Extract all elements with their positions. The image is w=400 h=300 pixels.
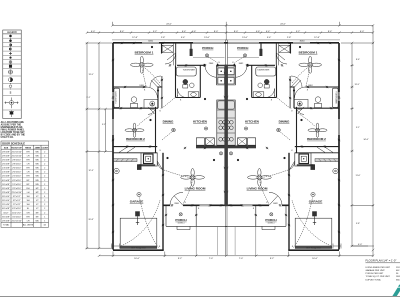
svg-text:COUNT: COUNT — [41, 148, 49, 150]
svg-text:WD: WD — [35, 159, 39, 161]
svg-text:WD: WD — [35, 155, 39, 157]
svg-text:2'8"x6'10": 2'8"x6'10" — [12, 159, 21, 161]
svg-text:6'-0": 6'-0" — [91, 31, 96, 33]
svg-text:GARAGE: GARAGE — [309, 199, 323, 203]
logo slash (teal) — [392, 288, 400, 297]
svg-text:8'-6": 8'-6" — [356, 59, 360, 61]
svg-text:13'-9": 13'-9" — [88, 74, 93, 76]
svg-text:PORCH: PORCH — [237, 46, 249, 50]
svg-text:5'2"x6'10": 5'2"x6'10" — [12, 184, 21, 186]
svg-text:2'10"x6'10": 2'10"x6'10" — [12, 220, 22, 222]
svg-text:WD: WD — [35, 164, 39, 166]
svg-text:13'-0": 13'-0" — [242, 37, 248, 39]
svg-text:1805: 1805 — [396, 276, 400, 278]
svg-text:6'2"x6'10": 6'2"x6'10" — [12, 208, 21, 210]
left unit geometry — [112, 40, 229, 256]
svg-text:3'2"x6'10": 3'2"x6'10" — [12, 216, 21, 218]
svg-text:1247: 1247 — [396, 267, 400, 269]
svg-text:DUPLEX TOTAL: DUPLEX TOTAL — [366, 278, 382, 281]
svg-text:9'-1": 9'-1" — [356, 127, 360, 129]
svg-text:4'2"x6'10": 4'2"x6'10" — [12, 180, 21, 182]
dimension lines: right — [341, 33, 374, 252]
svg-text:BEDROOM 1: BEDROOM 1 — [135, 51, 154, 55]
svg-text:3'0"x6'8": 3'0"x6'8" — [2, 216, 10, 218]
svg-text:2'6"x6'10": 2'6"x6'10" — [12, 172, 21, 174]
svg-text:TOTAL: TOTAL — [3, 224, 10, 227]
porch conc labels — [178, 223, 275, 225]
svg-text:3'2"x5'2": 3'2"x5'2" — [13, 200, 21, 202]
svg-text:4'0"x6'8": 4'0"x6'8" — [2, 180, 10, 182]
svg-text:12'-8": 12'-8" — [132, 37, 138, 39]
dimension texts — [91, 24, 365, 260]
svg-text:(CONC.): (CONC.) — [268, 223, 275, 225]
room labels — [126, 46, 326, 222]
schedule headers — [4, 147, 49, 150]
svg-text:ALL UNITS: ALL UNITS — [23, 224, 34, 227]
area tabulation — [366, 266, 400, 282]
svg-text:13'-9": 13'-9" — [354, 84, 359, 86]
svg-text:3'0"x5'0": 3'0"x5'0" — [2, 196, 10, 198]
svg-text:6'-0": 6'-0" — [360, 31, 365, 33]
svg-text:12'-3": 12'-3" — [88, 170, 93, 172]
svg-text:3'2"x6'10": 3'2"x6'10" — [12, 188, 21, 190]
svg-text:OH: OH — [26, 212, 30, 214]
svg-text:WD: WD — [35, 176, 39, 178]
svg-text:GARAGE PER UNIT: GARAGE PER UNIT — [366, 269, 386, 272]
svg-text:2'10"x6'10": 2'10"x6'10" — [12, 155, 22, 157]
svg-text:WD: WD — [35, 220, 39, 222]
garage door labels — [131, 246, 321, 249]
svg-text:PORCH: PORCH — [202, 46, 214, 50]
note text block — [1, 121, 26, 139]
svg-text:DINING: DINING — [279, 119, 290, 123]
svg-text:5'0"x6'8": 5'0"x6'8" — [2, 184, 10, 186]
svg-text:2'2"x6'10": 2'2"x6'10" — [12, 176, 21, 178]
svg-text:2'-8": 2'-8" — [287, 37, 292, 39]
svg-text:TUB/SHOWER: TUB/SHOWER — [257, 70, 270, 72]
svg-text:3'0"x6'8": 3'0"x6'8" — [2, 188, 10, 190]
svg-text:WD: WD — [35, 184, 39, 186]
svg-text:FLOOR PLAN 1/4" = 1'-0": FLOOR PLAN 1/4" = 1'-0" — [366, 258, 397, 262]
svg-text:5'-4": 5'-4" — [181, 37, 186, 39]
svg-text:BEDROOM 2: BEDROOM 2 — [126, 137, 145, 141]
svg-text:SIZE: SIZE — [4, 148, 9, 150]
svg-text:3050: 3050 — [148, 40, 154, 42]
svg-text:LIVING SPACE PER UNIT: LIVING SPACE PER UNIT — [366, 266, 391, 269]
svg-text:RH: RH — [27, 216, 30, 218]
center line below party wall — [225, 25, 227, 255]
svg-text:2'8"x6'10": 2'8"x6'10" — [12, 164, 21, 166]
svg-text:16'2"x7'2": 16'2"x7'2" — [12, 212, 21, 214]
svg-text:16'-0": 16'-0" — [134, 258, 140, 260]
party wall (center) — [224, 65, 228, 206]
svg-text:2'0"x3'0": 2'0"x3'0" — [2, 204, 10, 206]
svg-text:4'-6": 4'-6" — [256, 31, 261, 33]
legend box — [3, 30, 21, 119]
svg-text:UTILITY CO.: UTILITY CO. — [1, 137, 14, 139]
svg-text:RH: RH — [27, 188, 30, 190]
svg-text:3050: 3050 — [300, 40, 306, 42]
svg-text:BEDROOM 1: BEDROOM 1 — [299, 51, 318, 55]
svg-text:TUB/SHOWER: TUB/SHOWER — [183, 70, 196, 72]
svg-text:2'-8": 2'-8" — [161, 37, 166, 39]
svg-text:2'8"x6'8": 2'8"x6'8" — [2, 151, 10, 153]
svg-text:6'-4": 6'-4" — [266, 31, 271, 33]
svg-text:BEDROOM 2: BEDROOM 2 — [307, 137, 326, 141]
svg-text:2'10"x6'10": 2'10"x6'10" — [12, 192, 22, 194]
center pad lines — [217, 227, 235, 255]
svg-text:3'2"x5'2": 3'2"x5'2" — [13, 196, 21, 198]
svg-text:LIVING ROOM: LIVING ROOM — [247, 186, 268, 190]
svg-text:2'8"x6'8": 2'8"x6'8" — [2, 220, 10, 222]
svg-text:WD: WD — [35, 168, 39, 170]
svg-text:16'-0": 16'-0" — [312, 258, 318, 260]
svg-text:2'8"x6'8": 2'8"x6'8" — [2, 192, 10, 194]
svg-text:16'x7' Garage Door: 16'x7' Garage Door — [306, 246, 321, 249]
svg-text:2'8"x6'8": 2'8"x6'8" — [2, 155, 10, 157]
svg-text:GARAGE: GARAGE — [130, 199, 144, 203]
svg-text:2'10"x6'10": 2'10"x6'10" — [12, 151, 22, 153]
svg-text:TUB/SHOWER: TUB/SHOWER — [116, 91, 118, 104]
svg-text:5'-4": 5'-4" — [267, 37, 272, 39]
right unit geometry (mirrored) — [224, 40, 341, 256]
svg-text:WD: WD — [35, 172, 39, 174]
svg-text:TOTAL SQ. FT. PER UNIT: TOTAL SQ. FT. PER UNIT — [366, 275, 391, 278]
svg-text:9'-8": 9'-8" — [356, 223, 360, 225]
svg-text:PORCH: PORCH — [265, 218, 277, 222]
svg-text:2'6"x6'8": 2'6"x6'8" — [2, 159, 10, 161]
svg-text:2'2"x3'2": 2'2"x3'2" — [13, 204, 21, 206]
svg-text:KITCHEN: KITCHEN — [193, 119, 208, 123]
svg-text:PORCH PER UNIT: PORCH PER UNIT — [366, 273, 385, 275]
svg-text:16'x7': 16'x7' — [3, 212, 9, 214]
svg-text:3'0"x5'0": 3'0"x5'0" — [2, 200, 10, 202]
svg-text:4'-0": 4'-0" — [358, 244, 363, 246]
svg-text:8'-4": 8'-4" — [328, 31, 333, 33]
svg-text:5'-2": 5'-2" — [296, 31, 301, 33]
schedule rows text — [2, 151, 47, 226]
dimension lines: bottom — [98, 244, 374, 258]
svg-text:HINGE: HINGE — [25, 148, 32, 150]
svg-text:16'x7' Garage Door: 16'x7' Garage Door — [131, 246, 146, 249]
svg-text:LEGEND: LEGEND — [7, 31, 17, 34]
svg-text:TUB/SHOWER: TUB/SHOWER — [334, 91, 336, 104]
svg-text:(CONC.): (CONC.) — [178, 223, 185, 225]
svg-text:2'0"x6'8": 2'0"x6'8" — [2, 176, 10, 178]
svg-text:24'-0": 24'-0" — [166, 24, 172, 26]
bottom rule — [0, 296, 400, 298]
svg-text:WD: WD — [35, 180, 39, 182]
svg-text:11'-6": 11'-6" — [356, 175, 361, 177]
dimension lines: top — [86, 22, 374, 34]
svg-text:8'-0": 8'-0" — [214, 31, 219, 33]
svg-text:6'0"x6'8": 6'0"x6'8" — [2, 208, 10, 210]
legend symbols — [5, 35, 19, 117]
svg-text:34'-6": 34'-6" — [363, 139, 368, 141]
svg-text:9'-2": 9'-2" — [270, 258, 275, 260]
svg-text:LIVING ROOM: LIVING ROOM — [185, 186, 206, 190]
svg-text:RH: RH — [27, 159, 30, 161]
svg-text:9'-1": 9'-1" — [102, 124, 106, 126]
svg-text:2'6"x6'8": 2'6"x6'8" — [2, 164, 10, 166]
svg-text:PORCH: PORCH — [175, 218, 187, 222]
svg-text:24'-0": 24'-0" — [280, 24, 286, 26]
svg-text:WD: WD — [35, 151, 39, 153]
svg-text:2'6"x6'10": 2'6"x6'10" — [12, 168, 21, 170]
svg-text:2'4"x6'8": 2'4"x6'8" — [2, 172, 10, 174]
svg-text:13'-0": 13'-0" — [204, 37, 210, 39]
svg-text:7'-0": 7'-0" — [209, 258, 214, 260]
svg-text:5'-2": 5'-2" — [153, 31, 158, 33]
svg-text:RH: RH — [27, 151, 30, 153]
svg-text:JAMB: JAMB — [35, 147, 41, 150]
svg-text:9'-1": 9'-1" — [87, 97, 91, 99]
svg-text:12'-8": 12'-8" — [314, 37, 320, 39]
svg-text:RH: RH — [27, 176, 30, 178]
dimension lines: left — [86, 42, 114, 250]
svg-text:6'-4": 6'-4" — [182, 31, 187, 33]
svg-text:4'-6": 4'-6" — [192, 31, 197, 33]
svg-text:KITCHEN: KITCHEN — [245, 119, 260, 123]
svg-text:462: 462 — [396, 270, 400, 272]
svg-text:8'-0": 8'-0" — [234, 31, 239, 33]
svg-text:9'-2": 9'-2" — [178, 258, 183, 260]
svg-text:8'-4": 8'-4" — [120, 31, 125, 33]
svg-text:DOOR SCHEDULE: DOOR SCHEDULE — [2, 142, 25, 146]
door schedule table — [1, 141, 49, 227]
svg-text:2'4"x6'8": 2'4"x6'8" — [2, 168, 10, 170]
svg-text:DINING: DINING — [163, 119, 174, 123]
svg-text:ROUGH OP.: ROUGH OP. — [11, 148, 22, 150]
fixture labels — [116, 70, 337, 105]
svg-text:3610: 3610 — [396, 279, 400, 281]
svg-text:RH: RH — [27, 168, 30, 170]
svg-text:20'-8": 20'-8" — [88, 219, 93, 221]
svg-text:7'-0": 7'-0" — [239, 258, 244, 260]
